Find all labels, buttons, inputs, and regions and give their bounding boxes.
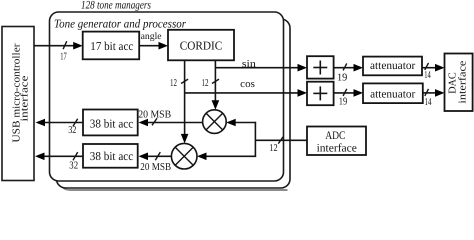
block attenuator lower — [363, 83, 423, 103]
wire CORDIC left leg (cos) — [184, 60, 186, 135]
bus slash 19 upper — [343, 63, 347, 70]
bus slash 17 — [63, 41, 67, 49]
wire upper attenuator to DAC — [422, 67, 437, 69]
bus slash 14 lower — [425, 89, 429, 96]
wire upper multiplier to upper 38 bit acc — [147, 122, 203, 124]
svg-text:17: 17 — [60, 51, 66, 62]
arrowhead into upper 38 bit acc — [139, 119, 149, 127]
bus slash 12 left leg — [181, 79, 188, 83]
back card (tone manager stack) — [57, 19, 291, 188]
wire cos to lower adder — [185, 92, 299, 94]
arrowhead into upper adder — [298, 64, 308, 72]
svg-text:interface: interface — [20, 75, 31, 121]
arrowhead into USB lower — [35, 153, 45, 161]
svg-text:38 bit acc: 38 bit acc — [90, 149, 133, 163]
block adder lower — [307, 82, 334, 106]
bus slash 14 upper — [425, 63, 429, 70]
wire lower adder to attenuator — [334, 92, 355, 94]
bus slash 32 upper — [73, 119, 78, 126]
arrowhead into USB upper — [36, 119, 46, 127]
svg-text:angle: angle — [141, 32, 162, 42]
bus slash 12 right leg — [212, 79, 219, 83]
arrowhead into 17 bit acc — [73, 42, 83, 50]
block ADC interface — [307, 127, 366, 156]
svg-text:17 bit acc: 17 bit acc — [90, 39, 133, 53]
block adder upper — [307, 56, 334, 78]
arrowhead into lower adder — [298, 89, 308, 97]
arrowhead into lower 38 bit acc — [139, 153, 149, 161]
third card bottom edge (tone manager stack) — [62, 182, 288, 190]
front card Tone generator and processor — [50, 12, 284, 181]
multiplier lower — [171, 143, 197, 169]
svg-text:14: 14 — [425, 97, 433, 108]
svg-text:sin: sin — [242, 59, 257, 70]
svg-text:CORDIC: CORDIC — [180, 39, 223, 53]
arrowhead into lower multiplier top — [181, 134, 189, 144]
wire lower multiplier to lower 38 bit acc — [147, 155, 171, 157]
svg-text:20 MSB: 20 MSB — [138, 109, 171, 120]
wire upper adder to attenuator — [334, 67, 355, 69]
svg-text:19: 19 — [339, 96, 348, 107]
arrowhead into upper multiplier right — [226, 119, 236, 127]
bus slash 12 ADC — [278, 137, 283, 144]
wire ADC to junction — [255, 139, 307, 141]
block USB micro-controller interface — [2, 27, 34, 181]
wire junction to lower multiplier — [206, 155, 256, 157]
wire junction to upper multiplier — [235, 122, 256, 124]
bus slash 19 lower — [343, 89, 347, 96]
svg-text:20 MSB: 20 MSB — [140, 162, 171, 173]
block 17 bit acc — [83, 32, 140, 60]
arrowhead into upper multiplier top — [212, 100, 220, 110]
wire USB to 17 bit acc — [34, 45, 80, 47]
svg-text:32: 32 — [68, 125, 76, 136]
arrowhead into upper attenuator — [354, 64, 364, 72]
block CORDIC — [168, 30, 234, 61]
svg-text:12: 12 — [269, 143, 277, 154]
svg-text:12: 12 — [202, 78, 209, 89]
svg-text:14: 14 — [424, 70, 431, 81]
multiplier upper — [203, 110, 227, 134]
wire upper 38 bit acc to USB — [45, 122, 83, 124]
svg-text:interface: interface — [457, 60, 468, 103]
block 38 bit acc lower — [83, 144, 138, 168]
block DAC interface — [445, 54, 473, 112]
bus slash 32 lower — [73, 152, 78, 160]
wire CORDIC right leg (sin) — [214, 60, 216, 101]
bus slash 20 MSB lower — [155, 152, 160, 160]
arrowhead into CORDIC — [159, 42, 169, 50]
arrowhead into lower multiplier right — [197, 153, 207, 161]
svg-text:attenuator: attenuator — [370, 60, 415, 72]
block attenuator upper — [363, 57, 422, 76]
block 38 bit acc upper — [83, 110, 138, 136]
svg-text:12: 12 — [170, 78, 177, 89]
arrowhead into DAC lower — [435, 89, 445, 97]
svg-text:38 bit acc: 38 bit acc — [90, 116, 133, 130]
svg-text:cos: cos — [240, 79, 255, 90]
arrowhead into lower attenuator — [354, 89, 364, 97]
svg-text:attenuator: attenuator — [370, 88, 415, 100]
svg-text:interface: interface — [317, 142, 357, 154]
svg-text:19: 19 — [337, 72, 347, 83]
svg-text:Tone generator and processor: Tone generator and processor — [54, 17, 186, 31]
wire junction vertical — [254, 122, 256, 157]
svg-text:32: 32 — [69, 160, 78, 171]
wire lower 38 bit acc to USB — [45, 155, 84, 157]
svg-text:ADC: ADC — [325, 130, 345, 142]
wire 17 bit acc to CORDIC — [139, 45, 164, 47]
arrowhead into DAC upper — [435, 64, 445, 72]
svg-text:128 tone managers: 128 tone managers — [81, 0, 151, 11]
wire lower attenuator to DAC — [423, 92, 437, 94]
wire sin to upper adder — [215, 67, 299, 69]
bus slash 20 MSB upper — [152, 118, 157, 125]
